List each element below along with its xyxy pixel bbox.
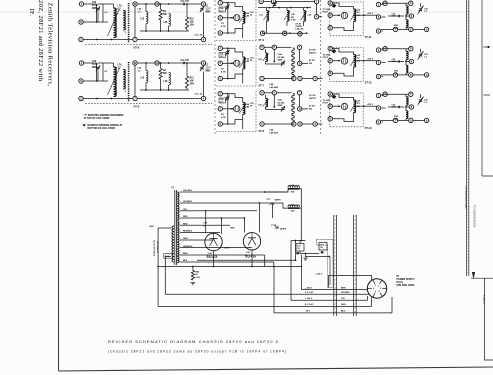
output stage 2 pin 7 bottom [393,73,397,77]
5T-11 pin 1 [328,1,332,5]
arrow into tube 5T-8 [231,108,233,110]
pin2 stub output stage 3 [382,107,386,109]
svg-text:C15 .25: C15 .25 [195,94,203,96]
wire top 5T-12 [332,49,353,55]
svg-text:IF.: IF. [28,9,35,17]
svg-text:C3A3-12: C3A3-12 [220,7,224,12]
trimmer output stage 3 [418,98,422,104]
5T-8 pin 3 [218,122,222,126]
tuning arrow 5T-12 [351,56,357,67]
tap vertical to V-28 plate 2 [221,218,223,234]
pin bus vertical 5T-7 [227,48,229,78]
junction dot tap YEL-BLK [264,191,266,193]
svg-text:AC SUPPLY: AC SUPPLY [156,242,159,254]
shield dashed line 5T-2 [128,3,130,43]
tick mid [484,94,491,96]
output stage 1 pin 3 [376,29,380,33]
trimmer arrow output stage 2 [418,51,424,60]
wire exit 5T-12 [364,60,377,62]
trimmer capacitor C1 5T-3 [200,66,204,72]
coil L26 5T-2 [169,14,171,27]
heater bus riser [295,241,297,261]
primary coil L7A 5T-2 [113,8,116,38]
output stage 1 terminal [424,27,428,31]
5T-3 pin 7 bottom [133,96,137,100]
coil L25 5T-3 [146,71,148,83]
T1 tap wire BRN [180,254,196,256]
wire bottom b 5T-8 trap [302,123,313,125]
coil bottom lead output stage 3 [405,119,407,121]
wire bottom 5T-12 [332,67,353,76]
coil mid lead output stage 3 [405,105,407,111]
wire pin3 to coil 5T-7 [228,69,243,79]
T1 secondary winding 8 [177,242,179,248]
svg-text:5T-13: 5T-13 [365,126,372,130]
tuning arrow 5T-11 [351,10,357,21]
5T-2 pin 6 [79,20,83,24]
dashed shield box 5T-7 [255,46,257,87]
wire right stub 5T-4 secondary [319,16,322,18]
5T-2 pin 2 [79,37,83,41]
output stage 1 pin 8 bottom [409,27,413,31]
shield capacitor symbol 5T-4 [234,15,240,21]
wire bottom b output stage 3 [398,119,409,121]
junction blob 5T-11 [332,4,337,8]
pin1 stub output stage 2 [382,49,384,51]
5T-11 pin 3 [328,26,332,30]
5T-3 pin 3 [201,61,205,65]
wire pin2 5T-8 [222,108,231,110]
V-27 cathode drop wire [251,250,253,267]
wire top b 5T-8 trap [276,92,291,94]
wire pin6 right 5T-3 [83,80,108,82]
output stage 2 pin 2 [376,60,380,64]
svg-text:+135 V: +135 V [367,13,374,15]
tuning arrow 5T-2 [108,9,120,36]
junction top a 5T-3 [145,62,147,64]
rectifier tube V-28 envelope [205,233,222,250]
svg-text:GRN/BLK: GRN/BLK [183,246,193,248]
T1 secondary winding 10 [177,256,179,262]
shielded capacitor 5T-13 [341,103,347,109]
5T-3 pin 4 [201,96,205,100]
5T-8 trap pin 4 bottom [313,122,317,126]
output stage 2 terminal [424,73,428,77]
heater junction [295,259,297,261]
capacitor C73 box [319,243,327,251]
junction blob 5T-13 [332,95,337,99]
svg-text:5U4G: 5U4G [207,255,218,259]
pin bus vertical 5T-4 [227,3,229,33]
junction filter rail [295,240,297,242]
wire mid 5T-8 trap [266,109,284,111]
wire pin1 to C23 5T-2 [84,3,97,5]
coax cable rungs [467,2,469,273]
svg-text:+135 V: +135 V [367,58,374,60]
pin bus vertical 5T-8 [227,94,229,124]
5T-2 pin B top [133,2,137,6]
svg-text:BLK: BLK [183,260,188,262]
junction channel [328,256,330,258]
wire pin1 to coil 5T-4 [228,3,243,12]
5T-4 pin 2 [218,16,222,20]
T1 tap wire RED [180,217,196,219]
trimmer capacitor C3A 5T-8 [225,96,229,102]
wire top 5T-7 trap [264,46,272,48]
junction top b 5T-2 [160,3,162,5]
5T-7 pin 2 [218,61,222,65]
wire pin6 down 5T-7 trap [273,49,275,61]
line cord wire down right [164,257,166,295]
junction bottom 5T-7 [227,78,229,80]
5T-4 secondary pin 3 [298,32,302,36]
wire tap to L79 [269,203,289,208]
wire pin6 down 5T-8 trap [273,95,275,107]
boxed label C3A 5T-7 [219,53,225,58]
svg-text:WH-RED: WH-RED [341,292,350,294]
junction top d 5T-3 [186,62,188,64]
wire right vertical 5T-2 [203,13,205,38]
junction 5T-2 [96,21,98,23]
wire +260V line [329,276,372,288]
C73 polarity blob [321,251,324,253]
pin2 stub output stage 1 [382,16,386,18]
junction top a 5T-2 [145,3,147,5]
resistor R10 5T-3 [185,76,188,88]
V-28 cathode drop wire [213,251,215,267]
5T-8 pin 2 [218,107,222,111]
wire bottom stub 5T-8 trap [317,123,322,125]
filter wire to channel [306,256,330,258]
tuning arrow 5T-8 trap [263,99,269,107]
bus join vertical 6.3 b [371,298,373,307]
bus wire -18 V [274,312,392,314]
power plug P1 [367,279,386,298]
tuning arrow 5T-7 [239,58,246,68]
tuning arrow L21 5T-4 secondary [264,11,270,20]
wire coil to edge 5T-11 [356,14,364,16]
wire bottom output stage 3 [381,119,393,121]
capacitor C71A [271,203,274,204]
choke output vertical [300,189,302,241]
heater bus wire [158,266,302,268]
5T-4 pin 3 [218,31,222,35]
5T-8 trap pin 8 [298,107,302,111]
trimmer output stage 1 [418,7,422,13]
wire to sound IF line [481,0,483,176]
wire top 5T-13 [332,94,353,100]
output stage 3 pin 7 bottom [393,118,397,122]
wire bottom right 5T-2 [137,39,201,41]
svg-text:YEL-BLK: YEL-BLK [183,190,193,192]
wire mid b output stage 3 [406,106,409,108]
T1 secondary winding 2 [177,199,179,205]
5T-7 trap pin 2 bottom [292,76,296,80]
svg-text:BLU: BLU [341,311,346,313]
svg-text:TO SOUND IF AMP: TO SOUND IF AMP [464,186,468,209]
wire lower rail 5T-4 secondary [263,32,307,34]
5T-3 pin 1 [79,61,83,65]
coax cable arrow [472,272,475,279]
T1 tap wire YEL-BLK [180,191,196,193]
svg-text:5T-4: 5T-4 [259,38,265,42]
resistor R10 5T-2 [185,17,188,29]
svg-text:BRN: BRN [183,253,188,255]
5T-2 pin 1 [79,2,83,6]
wire pin3 5T-8 [222,123,227,125]
choke L78 [288,186,299,188]
wire pin3 to coil 5T-4 [228,23,243,33]
5T-7 trap pin 7 [297,45,301,49]
wire right lower vertical [485,278,493,360]
V-28 internal filament [210,239,218,246]
wire bottom output stage 1 [381,28,393,30]
output stage 1 pin 1 [376,2,380,6]
svg-text:RED: RED [183,216,188,218]
svg-text:L4AL4B: L4AL4B [245,103,249,108]
5T-8 trap pin 5 [260,91,264,95]
plug P1 pin 4 [380,293,383,297]
choke L79 output vertical [300,207,302,209]
tuning arrow 5T-8 [239,103,246,113]
5T-8 trap pin 2 bottom [292,122,296,126]
output stage 3 pin 4 top [383,92,387,96]
V-28 internal plates [210,238,218,240]
svg-text:5T-11: 5T-11 [365,35,372,39]
svg-text:C11 270: C11 270 [181,60,190,62]
coil 5T-11 [354,9,356,21]
capacitor C30 output stage 3 [399,106,400,108]
trimmer capacitor C3A 5T-4 [225,5,229,11]
dashed shield box 5T-12 [330,48,363,82]
5T-12 pin 2 [328,59,332,63]
5T-4 secondary pin 9 [283,31,287,35]
wire bottom b 5T-7 trap [302,78,313,80]
wire pin2 5T-7 [222,62,231,64]
svg-text:C3A3-12: C3A3-12 [220,53,224,58]
wire top secondary 5T-2 [137,3,155,5]
svg-text:RED/BLK: RED/BLK [183,231,193,233]
wire bottom stub output stage 2 [413,74,425,76]
trimmer capacitor C1 5T-2 [200,7,204,13]
trimmer capacitor C23 5T-2 [96,7,100,13]
wire exit 5T-13 [364,105,377,107]
trimmer capacitor C4A 5T-8 trap [281,106,285,112]
coil top lead output stage 2 [405,49,407,52]
junction top d 5T-2 [186,3,188,5]
junction bottom 5T-8 [227,123,229,125]
junction rail a 5T-4 secondary [289,32,291,34]
svg-text:Zenith Television Receivers,: Zenith Television Receivers, [47,3,54,87]
svg-text:C11 270: C11 270 [181,1,190,3]
pin1 stub output stage 1 [382,4,384,6]
exit junction 5T-13 [363,105,365,107]
wire mid output stage 1 [388,15,404,17]
trimmer lead output stage 1 [420,3,422,7]
cable 2 to plug [352,215,354,316]
wire mid 5T-13 [332,105,340,107]
coil L30 5T-8 trap [266,99,268,107]
+300 drop wire [290,241,292,301]
svg-text:+135 V: +135 V [367,104,374,106]
tick to AGC [484,46,490,48]
wire pin1 to coil 5T-8 [228,94,243,103]
wire pin7 down 5T-8 trap [299,95,301,107]
svg-text:C3A3-12: C3A3-12 [220,98,224,103]
wire pin2 5T-4 [222,17,231,19]
junction mid 5T-7 [230,62,232,64]
arrow into tube 5T-4 [231,17,233,19]
svg-text:5T-3: 5T-3 [134,104,140,108]
ground filter [303,258,307,260]
wire rail upper 5T-4 secondary [258,7,311,9]
adjustable coil 5T-8 [243,102,245,114]
capacitor C71B [275,227,278,228]
output stage 3 pin 2 [376,106,380,110]
5T-4 pin 1 [218,1,222,5]
coil L21 5T-4 secondary [267,11,269,22]
wire AGC 5T-3 [102,63,104,81]
bus join vertical +300 [367,296,369,300]
svg-text:YEL/BLK: YEL/BLK [183,201,192,203]
output stage 2 pin 4 top [383,47,387,51]
wire right 5T-4 secondary [316,4,318,15]
T1 tap wire BLK [180,261,196,263]
output stage 2 pin 8 bottom [409,73,413,77]
wire mid vertical 5T-2 [134,6,136,37]
5T-2 pin 10 [155,2,159,6]
T1 secondary winding 3 [177,206,179,212]
shielded capacitor 5T-12 [341,58,347,64]
svg-text:+ 260 V: + 260 V [315,274,323,276]
svg-text:B: B [134,61,136,65]
svg-text:40MFD: 40MFD [280,228,287,231]
junction top c 5T-2 [168,3,170,5]
junction top 5T-7 [227,47,229,49]
coil bottom lead output stage 2 [405,73,407,75]
wire coil to edge 5T-12 [356,60,364,62]
svg-text:’20Z, 28F21 and 28F22 with: ’20Z, 28F21 and 28F22 with [37,0,44,82]
trap coil L44 5T-7 trap [292,48,295,79]
svg-text:+ 265 V: + 265 V [482,295,486,304]
trimmer capacitor C23 5T-3 [96,66,100,72]
wire top rail output stage 1 [382,2,410,4]
tuning arrow 5T-13 [351,101,357,112]
svg-text:10: 10 [156,61,159,65]
tap vertical to V-28 plate [205,211,207,234]
filter ground wire [300,251,319,254]
bus wire + 300 V [291,299,368,301]
wire tap to L78 [265,189,289,192]
5T-8 trap pin 6 [272,91,276,95]
svg-text:REVISED SCHEMATIC DIAGRAM C: REVISED SCHEMATIC DIAGRAM CHASSIS 28F20 … [108,339,279,344]
5T-13 pin 2 [328,104,332,108]
filter network rail [291,240,306,242]
junction top 5T-8 [227,93,229,95]
trimmer arrow output stage 3 [418,97,424,106]
5T-4 secondary pin 7 [314,0,318,4]
output stage 1 pin 7 bottom [393,27,397,31]
5T-8 pin 1 [218,92,222,96]
wire bottom right 5T-3 [137,98,201,100]
svg-text:5T-12: 5T-12 [365,80,372,84]
junction d 5T-4 secondary [307,7,309,9]
bus wire + 400 V [302,289,368,291]
resistor R81 [191,271,194,281]
trimmer capacitor C24 5T-4 secondary [272,2,276,8]
svg-text:BLK: BLK [150,226,155,228]
svg-text:5T-7: 5T-7 [259,84,265,88]
coil L25 5T-2 [146,12,148,24]
capacitor C30 output stage 1 [399,15,400,17]
bus wire 6.3 V AC [165,293,369,295]
resistor R4 5T-3 [159,69,162,80]
page left border [58,0,60,371]
V-27 internal filament [248,238,256,245]
svg-text:40MFD: 40MFD [275,199,282,202]
tap vertical to V-27 plate 2 [259,203,261,233]
capacitor C11 5T-2 [184,3,185,5]
trimmer lead output stage 2 [420,49,422,53]
5T-13 pin 1 [328,92,332,96]
C72 polarity blob [296,252,299,254]
svg-text:465 V: 465 V [225,247,231,250]
output stage 1 pin 5 top [409,1,413,5]
exit junction 5T-12 [363,60,365,62]
trimmer output stage 2 [418,53,422,59]
wire mid b output stage 1 [406,15,409,17]
choke coil upper output stage 1 [406,6,408,14]
T1 secondary winding 6 [177,228,179,234]
5T-7 pin 3 [218,76,222,80]
coil 5T-12 [354,55,356,67]
T1 tap wire YEL/BLK [180,202,196,204]
choke coil upper output stage 2 [406,51,408,59]
adjustable coil 5T-7 [243,57,245,69]
output stage 3 pin 6 mid [409,105,413,109]
svg-text:TO SOUND DISCR.: TO SOUND DISCR. [473,205,477,228]
wire top right 5T-2 [159,3,201,5]
svg-text:+ 300 V: + 300 V [305,298,313,300]
line cord junctions [157,266,159,268]
wire mid vertical 5T-3 [134,65,136,96]
tick blob [487,46,489,48]
output stage 3 terminal [424,118,428,122]
5T-2 pin 4 [201,37,205,41]
junction mid 5T-11 [338,14,340,16]
wire pin2 right 5T-2 [83,39,133,41]
svg-text:RED: RED [183,223,188,225]
junction 5T-3 [96,80,98,82]
wire vertical 5T-2 [96,4,98,22]
output stage 1 pin 4 top [383,1,387,5]
output stage 2 pin 3 [376,74,380,78]
svg-text:6.3 V AC: 6.3 V AC [305,291,314,294]
cable 1 to plug [333,215,335,316]
wire bottom 5T-8 trap [264,123,292,125]
trimmer capacitor C4A 5T-7 trap [281,61,285,67]
junction 5T-7 trap [273,61,275,63]
wire mid output stage 3 [388,106,404,108]
tap vertical to V-27 plate [244,218,246,233]
plug P1 pin 1 [373,280,375,284]
5T-3 pin 6 [79,79,83,83]
coil top lead output stage 1 [405,3,407,5]
boxed label C3A 5T-4 [219,7,225,12]
5T-8 trap pin 1 bottom [260,122,264,126]
coil mid lead output stage 1 [405,14,407,20]
wire bottom 5T-13 [332,113,353,122]
